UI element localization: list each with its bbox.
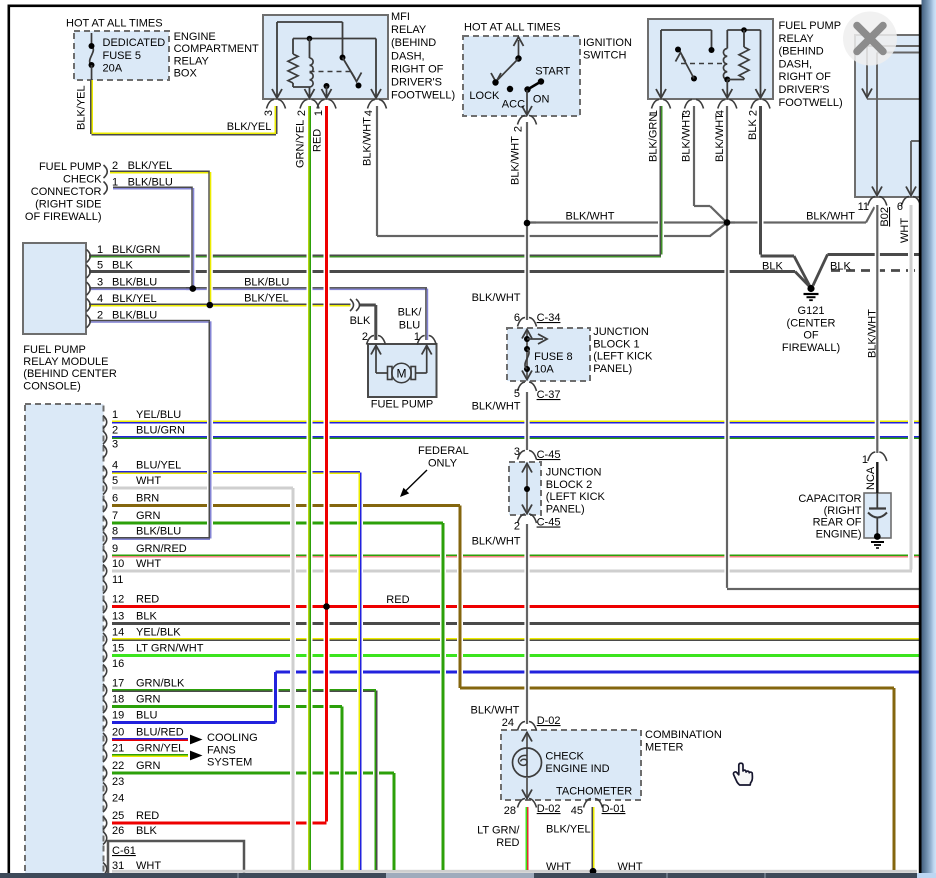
svg-text:1: 1: [862, 454, 868, 466]
svg-text:RELAY MODULE: RELAY MODULE: [23, 356, 108, 368]
svg-text:BOX: BOX: [174, 68, 198, 80]
svg-text:LT GRN/WHT: LT GRN/WHT: [136, 643, 204, 655]
svg-text:BLK/BLU: BLK/BLU: [244, 277, 289, 289]
svg-text:DASH,: DASH,: [779, 58, 813, 70]
svg-text:1: 1: [313, 110, 325, 116]
svg-text:WHT: WHT: [136, 558, 161, 570]
svg-text:FUSE 8: FUSE 8: [534, 351, 573, 363]
svg-text:GRN/BLK: GRN/BLK: [136, 678, 185, 690]
svg-text:ACC: ACC: [502, 99, 525, 111]
svg-text:C-37: C-37: [537, 389, 561, 401]
svg-text:1: 1: [112, 177, 118, 189]
svg-text:FUEL PUMP: FUEL PUMP: [23, 344, 86, 356]
svg-text:(CENTER: (CENTER: [787, 317, 836, 329]
svg-text:45: 45: [571, 805, 583, 817]
svg-text:FANS: FANS: [207, 744, 236, 756]
svg-text:BLK/WHT: BLK/WHT: [510, 136, 522, 185]
svg-text:21: 21: [112, 743, 124, 755]
svg-text:2: 2: [97, 309, 103, 321]
svg-text:COMBINATION: COMBINATION: [645, 729, 722, 741]
svg-text:FEDERAL: FEDERAL: [418, 445, 469, 457]
svg-text:PANEL): PANEL): [546, 504, 585, 516]
svg-text:BLK/WHT: BLK/WHT: [566, 211, 615, 223]
svg-text:BLK/WHT: BLK/WHT: [714, 113, 726, 162]
svg-text:2: 2: [296, 110, 308, 116]
svg-text:IGNITION: IGNITION: [583, 37, 632, 49]
svg-text:1: 1: [414, 331, 420, 343]
svg-text:WHT: WHT: [136, 860, 161, 872]
svg-text:GRN: GRN: [136, 694, 161, 706]
svg-text:ONLY: ONLY: [428, 458, 458, 470]
svg-text:28: 28: [504, 805, 516, 817]
svg-text:2: 2: [514, 521, 520, 533]
svg-text:BLU/GRN: BLU/GRN: [136, 425, 185, 437]
svg-text:6: 6: [514, 312, 520, 324]
svg-text:COOLING: COOLING: [207, 732, 258, 744]
svg-text:(BEHIND: (BEHIND: [779, 46, 824, 58]
svg-text:CHECK: CHECK: [545, 751, 584, 763]
svg-text:CONNECTOR: CONNECTOR: [31, 186, 102, 198]
svg-text:FOOTWELL): FOOTWELL): [779, 97, 843, 109]
svg-text:BLK/WHT: BLK/WHT: [472, 536, 521, 548]
svg-text:METER: METER: [645, 741, 684, 753]
svg-text:8: 8: [112, 526, 118, 538]
svg-text:WHT: WHT: [618, 861, 643, 873]
svg-text:BLK: BLK: [762, 261, 783, 273]
svg-text:BLK/WHT: BLK/WHT: [867, 309, 879, 358]
svg-text:RED: RED: [496, 837, 519, 849]
svg-text:BLK/WHT: BLK/WHT: [806, 211, 855, 223]
svg-text:BLK/WHT: BLK/WHT: [681, 113, 693, 162]
svg-text:TACHOMETER: TACHOMETER: [556, 786, 632, 798]
svg-text:16: 16: [112, 658, 124, 670]
svg-text:FOOTWELL): FOOTWELL): [391, 90, 455, 102]
svg-text:18: 18: [112, 694, 124, 706]
svg-text:19: 19: [112, 710, 124, 722]
svg-text:(RIGHT SIDE: (RIGHT SIDE: [35, 199, 101, 211]
svg-text:12: 12: [112, 594, 124, 606]
svg-text:BLK/YEL: BLK/YEL: [112, 293, 157, 305]
svg-text:CAPACITOR: CAPACITOR: [798, 493, 861, 505]
svg-text:2: 2: [112, 160, 118, 172]
svg-text:C-61: C-61: [112, 845, 136, 857]
svg-text:REAR OF: REAR OF: [813, 517, 862, 529]
svg-text:BLK: BLK: [136, 825, 157, 837]
svg-text:C-45: C-45: [537, 517, 561, 529]
svg-text:BLK/YEL: BLK/YEL: [76, 85, 88, 130]
svg-text:JUNCTION: JUNCTION: [593, 326, 649, 338]
svg-text:BLOCK 1: BLOCK 1: [593, 338, 639, 350]
svg-text:BLU/YEL: BLU/YEL: [136, 460, 181, 472]
svg-text:START: START: [535, 66, 570, 78]
svg-text:D-02: D-02: [537, 803, 561, 815]
svg-text:BLK/YEL: BLK/YEL: [227, 121, 272, 133]
svg-text:13: 13: [112, 611, 124, 623]
svg-text:2: 2: [513, 126, 525, 132]
svg-text:22: 22: [112, 760, 124, 772]
svg-text:BLK: BLK: [136, 611, 157, 623]
svg-text:BLK/: BLK/: [398, 307, 423, 319]
svg-text:OF: OF: [803, 330, 819, 342]
svg-text:20A: 20A: [103, 63, 123, 75]
svg-text:WHT: WHT: [136, 475, 161, 487]
svg-text:25: 25: [112, 810, 124, 822]
svg-text:M: M: [397, 367, 407, 381]
svg-text:3: 3: [263, 110, 275, 116]
svg-text:DEDICATED: DEDICATED: [103, 37, 166, 49]
svg-text:2: 2: [112, 425, 118, 437]
svg-text:4: 4: [97, 293, 103, 305]
svg-text:RIGHT OF: RIGHT OF: [391, 63, 444, 75]
svg-text:(LEFT KICK: (LEFT KICK: [546, 491, 606, 503]
svg-text:D-01: D-01: [602, 803, 626, 815]
svg-text:BLK: BLK: [350, 315, 371, 327]
svg-text:NCA: NCA: [865, 466, 877, 490]
svg-text:14: 14: [112, 627, 124, 639]
svg-text:1: 1: [97, 244, 103, 256]
svg-text:BLK: BLK: [830, 261, 851, 273]
svg-text:GRN/YEL: GRN/YEL: [295, 120, 307, 168]
svg-text:C-34: C-34: [537, 312, 561, 324]
svg-text:YEL/BLU: YEL/BLU: [136, 409, 181, 421]
svg-text:YEL/BLK: YEL/BLK: [136, 627, 181, 639]
svg-text:ENGINE): ENGINE): [816, 528, 862, 540]
svg-text:6: 6: [897, 201, 903, 213]
svg-text:24: 24: [112, 793, 124, 805]
svg-text:WHT: WHT: [899, 218, 911, 243]
svg-text:FUEL PUMP: FUEL PUMP: [371, 399, 434, 411]
svg-text:DRIVER'S: DRIVER'S: [391, 77, 442, 89]
svg-text:RED: RED: [312, 129, 324, 152]
svg-text:GRN/RED: GRN/RED: [136, 543, 187, 555]
svg-text:BLK/WHT: BLK/WHT: [362, 117, 374, 166]
svg-text:SWITCH: SWITCH: [583, 50, 626, 62]
svg-text:BLK/GRN: BLK/GRN: [112, 244, 160, 256]
svg-text:SYSTEM: SYSTEM: [207, 757, 252, 769]
svg-text:BLK/WHT: BLK/WHT: [472, 401, 521, 413]
svg-text:FIREWALL): FIREWALL): [782, 342, 840, 354]
svg-text:D-02: D-02: [537, 715, 561, 727]
svg-text:BLU/RED: BLU/RED: [136, 727, 184, 739]
svg-text:DASH,: DASH,: [391, 50, 425, 62]
svg-text:5: 5: [97, 260, 103, 272]
svg-text:BLK/WHT: BLK/WHT: [470, 705, 519, 717]
svg-text:FUSE 5: FUSE 5: [103, 50, 142, 62]
svg-text:BLK: BLK: [747, 119, 759, 140]
svg-text:5: 5: [514, 388, 520, 400]
svg-text:5: 5: [112, 475, 118, 487]
svg-text:1: 1: [112, 409, 118, 421]
svg-text:GRN: GRN: [136, 760, 161, 772]
svg-text:ENGINE IND: ENGINE IND: [545, 763, 609, 775]
svg-text:HOT AT ALL TIMES: HOT AT ALL TIMES: [66, 18, 163, 30]
svg-text:2: 2: [362, 331, 368, 343]
svg-text:WHT: WHT: [546, 861, 571, 873]
svg-text:BLK/WHT: BLK/WHT: [472, 292, 521, 304]
svg-text:BLK/BLU: BLK/BLU: [136, 526, 181, 538]
svg-text:17: 17: [112, 678, 124, 690]
svg-text:BLK/YEL: BLK/YEL: [244, 293, 289, 305]
svg-text:COMPARTMENT: COMPARTMENT: [174, 43, 259, 55]
svg-text:2: 2: [748, 110, 760, 116]
svg-text:4: 4: [363, 110, 375, 116]
svg-text:26: 26: [112, 825, 124, 837]
svg-text:(LEFT KICK: (LEFT KICK: [593, 351, 653, 363]
svg-text:ON: ON: [533, 93, 550, 105]
svg-text:C-45: C-45: [537, 449, 561, 461]
svg-text:15: 15: [112, 643, 124, 655]
svg-text:20: 20: [112, 727, 124, 739]
svg-text:RELAY: RELAY: [391, 24, 427, 36]
svg-text:GRN/YEL: GRN/YEL: [136, 743, 184, 755]
svg-text:BLK/GRN: BLK/GRN: [648, 114, 660, 162]
svg-text:(BEHIND CENTER: (BEHIND CENTER: [23, 368, 117, 380]
svg-text:HOT AT ALL TIMES: HOT AT ALL TIMES: [464, 22, 561, 34]
svg-text:RIGHT OF: RIGHT OF: [779, 71, 832, 83]
svg-text:JUNCTION: JUNCTION: [546, 467, 602, 479]
svg-text:OF FIREWALL): OF FIREWALL): [25, 211, 102, 223]
svg-text:RELAY: RELAY: [779, 33, 815, 45]
svg-text:MFI: MFI: [391, 11, 410, 23]
svg-text:3: 3: [112, 439, 118, 451]
svg-text:11: 11: [858, 201, 869, 213]
svg-text:4: 4: [112, 460, 118, 472]
svg-text:BLK/YEL: BLK/YEL: [546, 824, 591, 836]
svg-text:31: 31: [112, 860, 124, 872]
svg-text:BRN: BRN: [136, 493, 159, 505]
svg-text:6: 6: [112, 493, 118, 505]
svg-text:CONSOLE): CONSOLE): [23, 380, 80, 392]
svg-text:24: 24: [502, 717, 514, 729]
svg-text:3: 3: [97, 277, 103, 289]
svg-text:BLK/BLU: BLK/BLU: [128, 177, 173, 189]
svg-text:PANEL): PANEL): [593, 363, 632, 375]
svg-text:ENGINE: ENGINE: [174, 31, 216, 43]
svg-text:FUEL PUMP: FUEL PUMP: [779, 20, 842, 32]
svg-text:LT GRN/: LT GRN/: [477, 825, 520, 837]
svg-text:B02: B02: [879, 207, 891, 227]
svg-text:(BEHIND: (BEHIND: [391, 37, 436, 49]
svg-text:9: 9: [112, 543, 118, 555]
svg-text:RED: RED: [136, 810, 159, 822]
svg-text:CHECK: CHECK: [63, 174, 102, 186]
svg-text:DRIVER'S: DRIVER'S: [779, 84, 830, 96]
svg-text:7: 7: [112, 510, 118, 522]
svg-text:BLK: BLK: [112, 260, 133, 272]
svg-text:RED: RED: [386, 594, 409, 606]
svg-text:10: 10: [112, 558, 124, 570]
svg-text:BLOCK 2: BLOCK 2: [546, 479, 592, 491]
svg-text:BLU: BLU: [136, 710, 157, 722]
svg-text:BLK/YEL: BLK/YEL: [128, 160, 173, 172]
svg-text:RED: RED: [136, 594, 159, 606]
svg-text:BLU: BLU: [399, 320, 420, 332]
svg-text:11: 11: [112, 574, 123, 586]
svg-text:RELAY: RELAY: [174, 55, 210, 67]
svg-text:23: 23: [112, 776, 124, 788]
svg-text:GRN: GRN: [136, 510, 161, 522]
svg-text:BLK/BLU: BLK/BLU: [112, 309, 157, 321]
svg-text:G121: G121: [798, 305, 825, 317]
svg-text:BLK/BLU: BLK/BLU: [112, 277, 157, 289]
svg-text:LOCK: LOCK: [469, 90, 500, 102]
svg-text:3: 3: [514, 446, 520, 458]
svg-text:10A: 10A: [534, 364, 554, 376]
svg-text:FUEL PUMP: FUEL PUMP: [39, 161, 102, 173]
svg-text:(RIGHT: (RIGHT: [824, 505, 862, 517]
